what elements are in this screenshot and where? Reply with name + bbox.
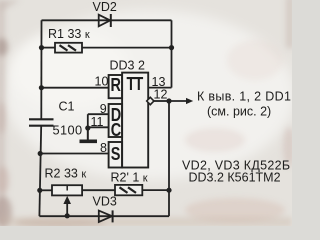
svg-text:R: R bbox=[111, 74, 121, 95]
wire: D-C tie vertical bbox=[87, 114, 89, 140]
svg-text:10: 10 bbox=[95, 74, 109, 88]
output arrowhead bbox=[186, 98, 193, 104]
wire: R2' right lead bbox=[142, 189, 169, 191]
junction: right rail / R2' bbox=[166, 188, 171, 193]
junction: right rail / R1 bbox=[169, 45, 174, 50]
label TT bbox=[127, 73, 144, 94]
resistor R2 (potentiometer) bbox=[52, 185, 82, 204]
ground (D,C inputs) bbox=[80, 128, 98, 141]
wire: top rail (VD2 anode net, left rail to right rail) bbox=[42, 19, 172, 21]
svg-text:VD2: VD2 bbox=[93, 0, 117, 14]
diode VD3 bbox=[99, 210, 113, 222]
junction: left rail / R2 bbox=[37, 188, 42, 193]
wire: pin 13 lead bbox=[148, 87, 171, 89]
wire: pin 8 lead (S input) bbox=[40, 153, 108, 155]
svg-text:S: S bbox=[111, 143, 121, 164]
capacitor C1 bbox=[29, 119, 54, 125]
pin label C bbox=[111, 119, 121, 140]
resistor R1 bbox=[55, 43, 82, 53]
wire: R2 to R2' link bbox=[82, 189, 115, 191]
wire: R2 left lead bbox=[40, 189, 52, 191]
op-amp U1: D flip-flop DD3.2 body bbox=[109, 73, 149, 168]
wire: right rail lower (pin 12 node down to bottom rail) bbox=[168, 101, 170, 216]
junction: left rail / R1 bbox=[39, 45, 44, 50]
junction: left rail / pin 8 bbox=[38, 151, 43, 156]
svg-text:R2 33 к: R2 33 к bbox=[45, 167, 87, 181]
svg-text:К выв. 1, 2 DD1: К выв. 1, 2 DD1 bbox=[197, 90, 291, 104]
inverter bubble on pin 12 bbox=[147, 97, 154, 104]
wire: bottom rail bbox=[39, 215, 169, 217]
wire: pin 12 lead from inverter bubble to node bbox=[154, 100, 169, 102]
pin label D bbox=[111, 104, 121, 125]
wire: pin 10 lead (R input) bbox=[41, 87, 108, 89]
svg-text:TT: TT bbox=[127, 73, 144, 94]
svg-text:12: 12 bbox=[154, 88, 168, 102]
svg-text:9: 9 bbox=[100, 102, 107, 116]
svg-text:R2' 1 к: R2' 1 к bbox=[111, 171, 148, 185]
junction: pin 12 output node bbox=[166, 98, 171, 103]
svg-text:C: C bbox=[111, 119, 121, 140]
wire: R2 wiper lead bbox=[66, 203, 68, 216]
junction: pin 11 / ground tie bbox=[85, 125, 90, 130]
svg-text:C1: C1 bbox=[59, 100, 75, 114]
svg-text:5100: 5100 bbox=[53, 123, 83, 138]
junction: bottom rail / R2 wiper bbox=[65, 213, 70, 218]
svg-text:8: 8 bbox=[100, 141, 107, 155]
diode VD2 bbox=[99, 14, 111, 27]
wire: pin 11 lead (C input) bbox=[88, 126, 109, 128]
wire: R1 right lead to right rail bbox=[82, 47, 172, 49]
pin label S bbox=[111, 143, 121, 164]
svg-text:VD3: VD3 bbox=[93, 194, 117, 208]
svg-text:DD3 2: DD3 2 bbox=[110, 58, 145, 72]
svg-text:(см. рис. 2): (см. рис. 2) bbox=[207, 105, 271, 119]
pin label R bbox=[111, 74, 121, 95]
wire: left rail lower (C1 bottom plate to bottom rail corner) bbox=[39, 126, 41, 217]
wire: output arrow lead bbox=[169, 100, 187, 102]
svg-text:R1 33 к: R1 33 к bbox=[48, 27, 90, 41]
svg-text:DD3.2 К561ТМ2: DD3.2 К561ТМ2 bbox=[189, 171, 281, 185]
wire: left rail upper (top rail to C1 top plate) bbox=[40, 20, 42, 119]
wire: R1 left lead bbox=[42, 47, 56, 49]
svg-text:11: 11 bbox=[91, 115, 104, 129]
wire: right rail upper (top rail to pin 13) bbox=[171, 20, 173, 87]
resistor R2' bbox=[115, 185, 142, 195]
junction: left rail / pin 10 bbox=[39, 85, 44, 90]
wire: pin 9 lead (D input) bbox=[88, 113, 109, 115]
